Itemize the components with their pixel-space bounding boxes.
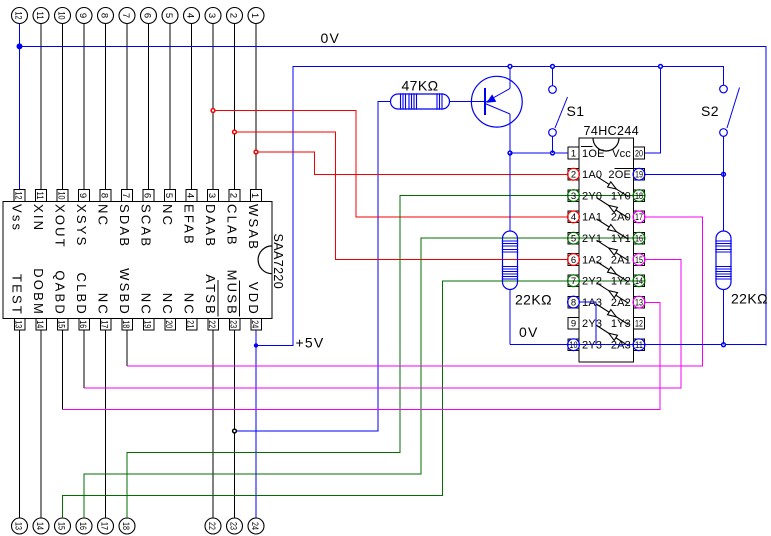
svg-text:74HC244: 74HC244 — [584, 124, 640, 138]
wire U2 pin19 2OE to S2/22K node — [645, 173, 724, 175]
wire red CLAB (terminal 2) to U2 pin6 1A2 — [235, 132, 569, 260]
connector terminal 11 (top) — [33, 8, 49, 24]
U2 pin 20 box (Vcc) — [634, 147, 645, 159]
svg-text:11: 11 — [34, 192, 45, 200]
overline for ATSB — [217, 280, 219, 317]
svg-text:XOUT: XOUT — [53, 204, 68, 249]
svg-text:22: 22 — [206, 320, 217, 328]
svg-text:NC: NC — [160, 204, 175, 227]
wire +5V rail from U1 pin24 to switches — [256, 66, 724, 345]
svg-text:5: 5 — [571, 234, 576, 245]
svg-text:2Y2: 2Y2 — [582, 276, 602, 288]
junction Vcc riser at +5V rail — [659, 65, 663, 69]
buffer gate 3 inside U2 — [597, 219, 629, 240]
svg-text:SAA7220: SAA7220 — [271, 234, 285, 290]
wire magenta U2 pin17 2A0 to U1 pin18 WSBD — [127, 217, 703, 366]
svg-text:20: 20 — [635, 148, 643, 159]
wire Q1 collector down — [509, 114, 511, 153]
connector terminal 6 (top) — [141, 8, 157, 24]
svg-text:23: 23 — [227, 320, 238, 328]
svg-text:7: 7 — [120, 13, 131, 18]
junction red tap on CLAB line — [233, 130, 237, 134]
resistor R2 22K (left) — [502, 153, 518, 345]
svg-text:QABD: QABD — [53, 270, 68, 316]
svg-text:2Y3: 2Y3 — [582, 318, 602, 330]
svg-text:8: 8 — [98, 193, 109, 198]
wire R1 left lead — [378, 101, 391, 103]
connector terminal 7 (top) — [119, 8, 135, 24]
svg-text:5: 5 — [163, 13, 174, 18]
svg-text:S2: S2 — [701, 103, 719, 119]
svg-text:3: 3 — [206, 13, 217, 18]
wire U1 pin14 DOBM to terminal 14 — [40, 330, 42, 518]
wire Q1 emitter to +5V rail — [509, 66, 511, 88]
connector terminal 3 (top) — [205, 8, 221, 24]
wire U1 pin22 ATSB to terminal 22 — [212, 330, 214, 518]
buffer gate 8 inside U2 — [597, 325, 629, 346]
junction red tap on DAAB line — [211, 109, 215, 113]
resistor R3 22K (right) — [715, 231, 731, 345]
svg-text:13: 13 — [12, 320, 23, 328]
svg-text:4: 4 — [184, 193, 195, 198]
U2 pin 13 box (2A2) — [633, 296, 645, 308]
U2 pin 10 box (2Y3) — [568, 339, 580, 351]
U1 pin 3 box (DAAB) — [206, 190, 219, 202]
U1 pin 12 box (Vss) — [12, 190, 25, 202]
svg-text:NC: NC — [182, 293, 197, 316]
wire collector node to U2 pin1 1OE — [510, 152, 568, 154]
svg-text:7: 7 — [120, 193, 131, 198]
wire terminal 7 to U1 pin 7 — [126, 24, 128, 190]
U1 pin 24 box (VDD) — [249, 319, 261, 331]
U1 pin 21 box (NC) — [184, 319, 197, 331]
U1 pin 16 box (CLBD) — [77, 319, 90, 331]
svg-text:14: 14 — [34, 320, 45, 328]
svg-text:15: 15 — [55, 320, 66, 328]
U1 pin 5 box (NC) — [163, 190, 176, 202]
svg-text:WSAB: WSAB — [246, 204, 261, 251]
wire U1 pin18 WSBD stub to magenta net — [126, 330, 128, 366]
switch S2 — [720, 85, 740, 231]
svg-text:9: 9 — [77, 13, 88, 18]
wire magenta U2 pin13 2A2 to U1 pin15 QABD — [63, 302, 661, 409]
svg-text:10: 10 — [55, 192, 66, 200]
wire terminal 1 to U1 pin 1 — [255, 24, 257, 190]
wire terminal 11 to U1 pin 11 — [40, 24, 42, 190]
buffer gate 2 inside U2 — [597, 198, 629, 219]
connector terminal 16 (bottom) — [76, 518, 92, 534]
wire U1 pin23 MUSB to resistor R1 47K — [235, 102, 391, 432]
U1 pin 13 box (TEST) — [12, 319, 24, 331]
svg-text:2OE: 2OE — [608, 169, 631, 181]
svg-text:4: 4 — [184, 13, 195, 18]
svg-text:1OE: 1OE — [582, 148, 605, 160]
junction 2OE at S2 line — [722, 172, 726, 176]
U1 pin 17 box (NC) — [98, 319, 111, 331]
U1 pin 23 box (MUSB) — [227, 319, 240, 331]
svg-text:6: 6 — [141, 193, 152, 198]
buffer gate 4 inside U2 — [597, 240, 629, 261]
svg-text:2Y1: 2Y1 — [582, 233, 602, 245]
transistor Q1 (PNP) — [471, 76, 522, 127]
connector terminal 24 (bottom) — [248, 518, 264, 534]
svg-text:Vss: Vss — [10, 204, 25, 232]
wire U1 pin23 MUSB to terminal 23 — [234, 330, 236, 518]
wire U1 pin13 TEST to terminal 13 — [19, 330, 21, 518]
junction 0V at right 22K resistor — [722, 343, 726, 347]
svg-text:22: 22 — [206, 522, 217, 530]
svg-text:1: 1 — [249, 13, 260, 18]
U1 pin 10 box (XOUT) — [55, 190, 68, 202]
svg-text:Vcc: Vcc — [612, 148, 631, 160]
connector terminal 9 (top) — [76, 8, 92, 24]
U1 pin 19 box (NC) — [141, 319, 154, 331]
U1 pin 4 box (EFAB) — [184, 190, 197, 202]
U2 pin 8 box (1A3) — [568, 296, 580, 308]
junction 0V rail at terminal 12 — [17, 43, 23, 49]
overline for 2OE — [615, 168, 634, 170]
overline for 1OE — [581, 146, 593, 148]
wire green U2 2Y2 (pins 7-14) to terminal 15 — [63, 281, 645, 518]
U2 pin 7 box (2Y2) — [568, 275, 580, 287]
connector terminal 12 (top) — [12, 8, 28, 24]
U1 pin 14 box (DOBM) — [34, 319, 47, 331]
svg-text:NC: NC — [96, 204, 111, 227]
svg-text:14: 14 — [34, 522, 45, 530]
U1 pin 9 box (XSYS) — [77, 190, 90, 202]
junction +5V tap on VDD line — [254, 343, 258, 347]
svg-text:1A3: 1A3 — [582, 297, 602, 309]
svg-text:11: 11 — [34, 12, 45, 20]
svg-text:WSBD: WSBD — [117, 268, 132, 316]
svg-text:8: 8 — [571, 297, 576, 308]
svg-text:EFAB: EFAB — [182, 204, 197, 246]
U2 pin 16 box (1Y1) — [633, 232, 645, 244]
junction S1 at +5V rail — [551, 65, 555, 69]
wire terminal 9 to U1 pin 9 — [83, 24, 85, 190]
wire terminal 6 to U1 pin 6 — [148, 24, 150, 190]
switch S1 — [549, 66, 568, 153]
svg-text:20: 20 — [163, 320, 174, 328]
U1 pin 22 box (ATSB) — [206, 319, 219, 331]
U2 pin 18 box (1Y0) — [633, 190, 645, 202]
svg-text:NC: NC — [139, 293, 154, 316]
svg-text:4: 4 — [571, 212, 576, 223]
svg-text:TEST: TEST — [10, 274, 25, 316]
U1 pin 7 box (SDAB) — [120, 190, 133, 202]
svg-text:XIN: XIN — [31, 204, 46, 232]
svg-text:VDD: VDD — [246, 282, 261, 316]
svg-text:0V: 0V — [519, 324, 539, 340]
U2 pin 14 box (1Y2) — [633, 275, 645, 287]
wire U1 pin24 VDD to terminal 24 (+5V) — [255, 330, 257, 518]
U2 pin 11 box (2A3) — [633, 339, 645, 351]
overline for MUSB — [239, 281, 241, 317]
junction collector node — [508, 151, 512, 155]
svg-text:1: 1 — [571, 148, 576, 159]
wire U2 pin20 Vcc to +5V rail — [645, 66, 661, 153]
svg-text:0V: 0V — [321, 30, 341, 46]
connector terminal 17 (bottom) — [98, 518, 114, 534]
U1 pin 11 box (XIN) — [34, 190, 47, 202]
svg-text:SCAB: SCAB — [139, 204, 154, 248]
junction MUSB tap — [233, 429, 237, 433]
U1 pin 6 box (SCAB) — [141, 190, 154, 202]
junction emitter at +5V — [508, 65, 512, 69]
svg-text:22KΩ: 22KΩ — [731, 291, 768, 307]
svg-text:22KΩ: 22KΩ — [515, 292, 552, 308]
svg-text:16: 16 — [77, 320, 88, 328]
IC U2 74HC244 body — [579, 138, 634, 362]
U2 pin 6 box (1A2) — [568, 254, 580, 266]
svg-text:6: 6 — [141, 13, 152, 18]
svg-text:1A0: 1A0 — [582, 169, 602, 181]
svg-text:1A1: 1A1 — [582, 212, 602, 224]
svg-text:9: 9 — [77, 193, 88, 198]
svg-text:2: 2 — [227, 193, 238, 198]
U2 pin 4 box (1A1) — [568, 211, 580, 223]
U1 pin 8 box (NC) — [98, 190, 111, 202]
wire terminal 2 to U1 pin 2 — [234, 24, 236, 190]
connector terminal 1 (top) — [248, 8, 264, 24]
wire 0V bottom net through U2 pins 10/11 — [510, 344, 766, 346]
connector terminal 5 (top) — [162, 8, 178, 24]
connector terminal 13 (bottom) — [12, 518, 28, 534]
U1 pin 1 box (WSAB) — [249, 190, 262, 202]
svg-text:18: 18 — [120, 320, 131, 328]
resistor R1 47K body — [391, 93, 450, 109]
svg-text:8: 8 — [98, 13, 109, 18]
svg-text:18: 18 — [120, 522, 131, 530]
svg-text:15: 15 — [55, 522, 66, 530]
wire U1 pin15 QABD stub to magenta net — [62, 330, 64, 410]
connector terminal 18 (bottom) — [119, 518, 135, 534]
wire 0V rail top and right edge — [20, 46, 767, 345]
wire terminal 8 to U1 pin 8 — [105, 24, 107, 190]
wire terminal 5 to U1 pin 5 — [169, 24, 171, 190]
svg-text:5: 5 — [163, 193, 174, 198]
svg-text:+5V: +5V — [296, 335, 325, 351]
wire terminal 4 to U1 pin 4 — [191, 24, 193, 190]
svg-text:CLBD: CLBD — [74, 273, 89, 316]
svg-text:9: 9 — [571, 319, 576, 330]
svg-text:23: 23 — [227, 522, 238, 530]
wire green U2 2Y1 (pins 5-16) to terminal 16 — [84, 238, 644, 518]
svg-text:3: 3 — [206, 193, 217, 198]
connector terminal 2 (top) — [227, 8, 243, 24]
U1 pin 18 box (WSBD) — [120, 319, 133, 331]
connector terminal 10 (top) — [55, 8, 71, 24]
svg-text:17: 17 — [98, 522, 109, 530]
buffer gate 7 inside U2 — [597, 304, 629, 325]
connector terminal 14 (bottom) — [33, 518, 49, 534]
svg-text:3: 3 — [571, 191, 576, 202]
connector terminal 23 (bottom) — [227, 518, 243, 534]
buffer gate 6 inside U2 — [597, 283, 629, 304]
buffer gate 5 inside U2 — [597, 262, 629, 283]
U1 pin 20 box (NC) — [163, 319, 176, 331]
svg-text:21: 21 — [184, 320, 195, 328]
svg-text:S1: S1 — [567, 103, 585, 119]
svg-text:24: 24 — [249, 522, 260, 530]
wire U1 pin16 CLBD stub to magenta net — [83, 330, 85, 388]
svg-text:SDAB: SDAB — [117, 204, 132, 248]
svg-text:XSYS: XSYS — [74, 204, 89, 247]
wire U2 pin8 1A3 to 0V net (internal) — [579, 302, 596, 345]
svg-text:7: 7 — [571, 276, 576, 287]
U2 pin 17 box (2A0) — [633, 211, 645, 223]
U2 pin 1 box (1OE) — [568, 147, 579, 159]
svg-text:17: 17 — [98, 320, 109, 328]
U1 pin 15 box (QABD) — [55, 319, 68, 331]
svg-text:2Y0: 2Y0 — [582, 190, 602, 202]
svg-text:NC: NC — [96, 293, 111, 316]
wire red WSAB (terminal 1) to U2 pin2 1A0 — [256, 152, 568, 174]
U1 pin 2 box (CLAB) — [227, 190, 240, 202]
svg-text:10: 10 — [55, 11, 66, 19]
connector terminal 8 (top) — [98, 8, 114, 24]
wire red DAAB (terminal 3) to U2 pin4 1A1 — [213, 111, 568, 217]
svg-text:12: 12 — [12, 192, 23, 200]
svg-text:CLAB: CLAB — [225, 204, 240, 247]
U2 pin 15 box (2A1) — [633, 254, 645, 266]
U2 pin 19 box (2OE) — [633, 168, 645, 180]
svg-text:2Y3: 2Y3 — [582, 340, 602, 352]
U2 pin 9 box (2Y3) — [568, 318, 579, 330]
connector terminal 15 (bottom) — [55, 518, 71, 534]
svg-text:DAAB: DAAB — [203, 204, 218, 248]
svg-text:12: 12 — [12, 12, 23, 20]
svg-text:2: 2 — [227, 13, 238, 18]
svg-text:16: 16 — [77, 522, 88, 530]
U2 pin 5 box (2Y1) — [568, 232, 580, 244]
svg-text:6: 6 — [571, 255, 576, 266]
svg-text:1A2: 1A2 — [582, 254, 602, 266]
U2 pin 3 box (2Y0) — [568, 190, 580, 202]
svg-text:DOBM: DOBM — [31, 268, 46, 316]
wire R1 right lead to Q1 base — [450, 101, 486, 103]
svg-text:NC: NC — [160, 293, 175, 316]
U2 pin 12 box (1Y3) — [634, 318, 645, 330]
junction red tap on WSAB line — [254, 150, 258, 154]
svg-text:MUSB: MUSB — [225, 270, 240, 316]
svg-text:2: 2 — [571, 170, 576, 181]
U2 pin 2 box (1A0) — [568, 168, 580, 180]
svg-text:ATSB: ATSB — [203, 274, 218, 316]
connector terminal 22 (bottom) — [205, 518, 221, 534]
svg-text:13: 13 — [12, 522, 23, 530]
connector terminal 4 (top) — [184, 8, 200, 24]
wire terminal 3 to U1 pin 3 — [212, 24, 214, 190]
svg-text:24: 24 — [249, 320, 260, 328]
wire terminal 10 to U1 pin 10 — [62, 24, 64, 190]
wire terminal 12 to U1 pin 12 — [19, 24, 21, 190]
wire green U2 2Y0 (pins 3-18) to terminal 18 — [127, 196, 644, 518]
svg-text:1: 1 — [249, 193, 260, 198]
junction S1 at 1OE wire — [551, 151, 555, 155]
svg-text:12: 12 — [635, 319, 643, 330]
IC U1 SAA7220 body — [3, 202, 272, 319]
buffer gate 1 inside U2 — [597, 176, 629, 197]
svg-text:19: 19 — [141, 320, 152, 328]
wire magenta U2 pin15 2A1 to U1 pin16 CLBD — [84, 260, 681, 389]
svg-text:47KΩ: 47KΩ — [402, 78, 439, 94]
wire U1 pin17 NC to terminal 17 — [105, 330, 107, 518]
